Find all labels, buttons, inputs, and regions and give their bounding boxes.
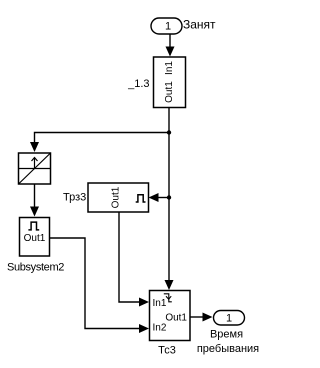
svg-text:In1: In1 bbox=[164, 61, 175, 75]
svg-text:In1: In1 bbox=[153, 298, 167, 309]
svg-text:1: 1 bbox=[165, 21, 171, 33]
svg-text:Out1: Out1 bbox=[24, 233, 46, 244]
wire inport to _1.3 bbox=[166, 34, 175, 57]
subsystem _1.3 (rotated) bbox=[154, 57, 186, 108]
svg-text:пребывания: пребывания bbox=[197, 343, 259, 355]
svg-text:Out1: Out1 bbox=[164, 81, 175, 103]
outport oval 1 (Время пребывания) bbox=[214, 311, 245, 326]
wire Subsystem2 Out1 to Тс3 In2 bbox=[50, 238, 150, 333]
rate limiter block bbox=[19, 153, 51, 184]
block Трз3 (rotated) bbox=[88, 183, 149, 212]
wire rate limiter to Subsystem2 bbox=[30, 184, 39, 217]
svg-text:1: 1 bbox=[226, 313, 232, 325]
wire junction to rate limiter block bbox=[30, 133, 169, 153]
wire trunk junction to Тс3 trigger bbox=[165, 133, 174, 291]
svg-text:Занят: Занят bbox=[183, 18, 216, 32]
svg-text:_1.3: _1.3 bbox=[127, 78, 149, 90]
junction A bbox=[167, 130, 171, 134]
svg-text:Трз3: Трз3 bbox=[63, 192, 86, 204]
svg-text:Время: Время bbox=[210, 329, 243, 341]
wire junction B to Трз3 input bbox=[149, 193, 170, 202]
junction B bbox=[167, 195, 171, 199]
svg-text:Out1: Out1 bbox=[111, 186, 122, 208]
svg-text:In2: In2 bbox=[153, 323, 167, 334]
wire Трз3 Out1 to Тс3 In1 bbox=[119, 212, 149, 307]
trigger symbol bbox=[164, 294, 172, 302]
wire _1.3 Out1 down to junction bbox=[168, 108, 170, 133]
svg-text:Out1: Out1 bbox=[165, 313, 187, 324]
inport oval 1 (Занят) bbox=[151, 18, 182, 34]
block Тс3 bbox=[150, 291, 191, 341]
Subsystem2 block bbox=[20, 218, 50, 257]
svg-text:Subsystem2: Subsystem2 bbox=[7, 262, 64, 274]
wire Тс3 Out1 to outport bbox=[190, 313, 213, 322]
svg-text:Тс3: Тс3 bbox=[158, 345, 176, 357]
